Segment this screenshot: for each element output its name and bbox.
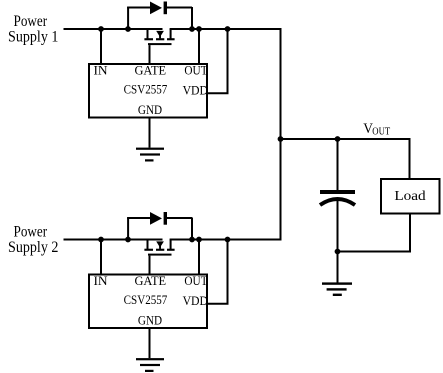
node: OUT junction 2 <box>196 237 202 243</box>
svg-text:OUT: OUT <box>184 273 208 288</box>
node: D2 anode junction <box>125 237 131 243</box>
svg-text:Supply 1: Supply 1 <box>8 29 58 46</box>
wire: GND pin 2 <box>149 329 151 358</box>
svg-text:GATE: GATE <box>134 274 166 288</box>
svg-text:IN: IN <box>93 63 108 78</box>
svg-text:CSV2557: CSV2557 <box>124 82 168 97</box>
wire: OUT pin 2 <box>198 240 200 275</box>
svg-text:GATE: GATE <box>134 63 166 77</box>
node: IN junction <box>98 26 104 32</box>
wire: diode D2 top right <box>167 217 192 219</box>
wire: bottom return horizontal <box>337 251 411 253</box>
svg-text:VDD: VDD <box>183 83 209 98</box>
wire: IN pin 2 <box>100 240 102 275</box>
svg-text:GND: GND <box>138 313 162 328</box>
load box <box>381 179 440 214</box>
node: capacitor top junction <box>335 136 341 142</box>
node: D1 cathode junction <box>189 26 195 32</box>
wire: load bottom <box>409 215 411 253</box>
node: capacitor bottom junction <box>335 249 341 255</box>
wire: junction to output ground <box>337 252 339 283</box>
wire: diode D2 top left <box>127 217 151 219</box>
wire: IN pin <box>100 29 102 64</box>
wire: Q1 source to output bus <box>170 28 281 30</box>
svg-text:Power: Power <box>14 224 48 241</box>
wire: Q2 source to output bus <box>170 239 281 241</box>
svg-text:OUT: OUT <box>372 127 390 138</box>
op-amp U2 (CSV2557 controller box) <box>89 275 207 329</box>
wire: diode D2 left riser <box>127 218 129 240</box>
node: IN junction 2 <box>98 237 104 243</box>
wire: supply 2 input to Q2 drain <box>64 239 163 241</box>
ground (U1) <box>136 148 164 162</box>
svg-text:VDD: VDD <box>183 294 209 309</box>
transistor Q1 (N-MOSFET) <box>144 29 174 64</box>
ground (output) <box>322 282 352 296</box>
wire: output bus vertical <box>280 28 282 241</box>
svg-text:GND: GND <box>138 102 162 117</box>
wire: VDD pin 2 <box>208 240 228 304</box>
node: VDD junction <box>225 26 231 32</box>
ground (U2) <box>136 358 164 372</box>
wire: GND pin <box>149 119 151 148</box>
node: D1 anode junction <box>125 26 131 32</box>
net label VOUT <box>363 121 390 138</box>
capacitor C1 <box>320 139 355 252</box>
svg-text:Power: Power <box>14 13 48 30</box>
wire: diode D2 right riser <box>191 218 193 240</box>
wire: bus to VOUT horizontal <box>280 138 411 140</box>
svg-text:OUT: OUT <box>184 63 208 78</box>
svg-text:Load: Load <box>394 189 426 204</box>
node: OUT junction <box>196 26 202 32</box>
wire: diode D1 left riser <box>127 7 129 29</box>
wire: VOUT to load top <box>409 139 411 179</box>
node: bus/VOUT junction <box>278 136 284 142</box>
wire: supply 1 input to Q1 drain <box>64 28 163 30</box>
wire: diode D1 right riser <box>191 7 193 29</box>
svg-text:CSV2557: CSV2557 <box>124 292 168 307</box>
transistor Q2 (N-MOSFET) <box>144 240 174 275</box>
wire: diode D1 top left <box>127 7 151 9</box>
svg-text:IN: IN <box>93 273 108 288</box>
wire: OUT pin <box>198 29 200 64</box>
node: VDD junction 2 <box>225 237 231 243</box>
label: Power Supply 2 <box>8 224 58 256</box>
diode D2 <box>150 212 167 225</box>
diode D1 <box>150 2 167 15</box>
node: D2 cathode junction <box>189 237 195 243</box>
wire: diode D1 top right <box>167 7 192 9</box>
wire: VDD pin <box>208 29 228 93</box>
svg-text:Supply 2: Supply 2 <box>8 240 58 257</box>
label: Power Supply 1 <box>8 13 58 45</box>
op-amp U1 (CSV2557 controller box) <box>89 64 207 118</box>
